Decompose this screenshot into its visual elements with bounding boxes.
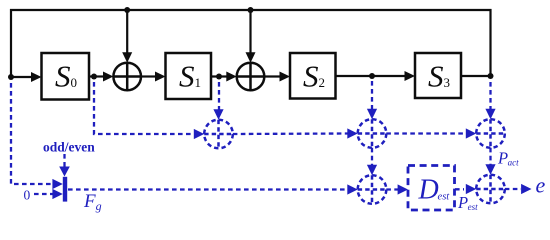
wire tap to XOR A2 xyxy=(249,10,251,54)
junction dot S3 output xyxy=(488,73,494,79)
junction dot input node xyxy=(8,74,14,80)
dashed wire S1 output down xyxy=(218,82,220,110)
XOR gate B5 dashed xyxy=(476,175,505,204)
svg-text:e: e xyxy=(536,173,546,198)
register S3 box xyxy=(415,53,461,98)
arrowhead into XOR B5 top xyxy=(485,164,495,174)
register S1 box xyxy=(166,53,212,99)
dashed wire S3 output down xyxy=(489,82,491,110)
arrowhead odd/even into mux xyxy=(59,167,70,177)
dashed wire XOR B3 down to XOR B5 xyxy=(489,148,491,166)
wire S3 to right rail xyxy=(461,75,491,77)
arrowhead zero into mux xyxy=(52,189,62,199)
wire tap to XOR A1 xyxy=(126,10,128,54)
mux switch bar Fg xyxy=(63,177,67,202)
XOR gate B2 dashed xyxy=(358,119,387,148)
wire top feedback xyxy=(10,9,492,11)
XOR gate A1 xyxy=(113,63,141,91)
junction dot top right tap xyxy=(248,7,254,13)
register S0 box xyxy=(42,53,90,100)
dashed wire XOR B1 to XOR B2 xyxy=(233,132,349,135)
arrowhead into D box xyxy=(398,184,408,194)
junction dot S1 output xyxy=(216,74,222,80)
arrowhead into XOR A1 left xyxy=(103,72,113,82)
arrowhead into XOR B3 top xyxy=(485,109,495,119)
wire XOR A2 to S2 xyxy=(264,75,281,77)
svg-text:Pest: Pest xyxy=(457,193,478,212)
dashed wire XOR B4 to D box xyxy=(386,188,399,190)
XOR gate B1 dashed xyxy=(204,120,233,149)
register S2 box xyxy=(290,53,336,99)
arrowhead into XOR A2 top xyxy=(246,52,256,62)
dashed wire odd/even into mux xyxy=(63,154,65,168)
wire left rail xyxy=(10,9,12,78)
delay block D_est dashed box xyxy=(408,166,455,211)
wire S0 to XOR A1 xyxy=(89,75,105,77)
svg-text:odd/even: odd/even xyxy=(43,140,95,155)
arrowhead into S3 xyxy=(405,71,416,81)
arrowhead into XOR B4 top xyxy=(367,165,377,175)
arrowhead into XOR B5 left xyxy=(466,184,476,194)
junction dot S2 output xyxy=(369,73,375,79)
arrowhead into S0 xyxy=(31,72,42,82)
wire S1 to XOR A2 xyxy=(211,75,228,77)
arrowhead output e xyxy=(521,184,531,194)
arrowhead into S1 xyxy=(155,72,166,82)
svg-text:Pact: Pact xyxy=(497,149,519,168)
wire XOR A1 to S1 xyxy=(141,75,157,77)
junction dot top left tap xyxy=(124,7,130,13)
arrowhead rail into mux xyxy=(52,179,62,189)
junction dot S0 output xyxy=(91,74,97,80)
svg-text:Fg: Fg xyxy=(83,191,102,213)
XOR gate A2 xyxy=(237,63,265,91)
dashed wire S2 output down xyxy=(371,81,373,110)
arrowhead into XOR B1 top xyxy=(213,109,223,119)
dashed wire XOR B2 to XOR B3 xyxy=(386,132,467,134)
arrowhead into XOR B3 left xyxy=(466,128,476,138)
dashed wire left rail down xyxy=(11,83,53,184)
wire S2 to S3 xyxy=(336,75,407,77)
XOR gate B4 dashed xyxy=(358,175,387,204)
dashed wire zero into mux xyxy=(34,193,53,195)
dashed wire XOR B2 down to XOR B4 xyxy=(371,148,373,166)
arrowhead into S2 xyxy=(280,72,291,82)
arrowhead into XOR B1 left xyxy=(194,129,204,139)
dashed wire XOR B5 output e xyxy=(505,188,521,190)
arrowhead into XOR A1 top xyxy=(122,52,132,62)
arrowhead into XOR B4 left xyxy=(347,184,357,194)
svg-text:0: 0 xyxy=(24,188,31,203)
XOR gate B3 dashed xyxy=(476,119,505,148)
dashed wire S0 output down and right xyxy=(94,82,195,134)
dashed wire D box to XOR B5 xyxy=(455,188,464,190)
arrowhead into XOR A2 left xyxy=(226,72,236,82)
arrowhead into XOR B2 left xyxy=(347,128,357,138)
wire input to S0 xyxy=(11,76,33,78)
wire right rail xyxy=(489,9,491,76)
arrowhead into XOR B2 top xyxy=(367,109,377,119)
dashed wire mux output to XOR B4 xyxy=(68,188,349,190)
